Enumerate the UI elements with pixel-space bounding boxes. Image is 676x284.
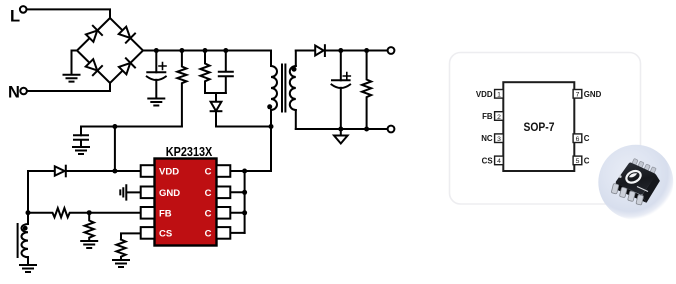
svg-text:FB: FB (159, 208, 172, 219)
wire secondary top to diode (296, 50, 315, 52)
pin names package (476, 90, 602, 166)
svg-text:6: 6 (576, 136, 580, 143)
svg-text:C: C (205, 208, 212, 219)
node dot aux (26, 210, 31, 215)
chip side face (642, 175, 660, 203)
wire N to bridge bottom (27, 83, 110, 91)
wire ic right bus (230, 171, 271, 233)
chip front face (616, 183, 647, 203)
capacitor C1 electrolytic (155, 51, 157, 73)
ground C1 (148, 99, 164, 106)
svg-text:C: C (584, 156, 590, 165)
pin boxes U1 right (217, 165, 231, 177)
wire primary bottom to drain (270, 110, 272, 171)
transformer core (282, 65, 285, 112)
node N terminal (20, 88, 27, 95)
wire L to bridge top (27, 9, 111, 18)
ground R6 (113, 260, 129, 267)
diode D7 vdd (28, 170, 55, 172)
chip front pins (611, 183, 643, 205)
chip logo swirl (624, 169, 642, 185)
pin labels U1 (159, 167, 212, 240)
chip marking text (637, 187, 648, 192)
transformer T1 primary (270, 51, 272, 67)
aux winding L1 (21, 224, 28, 257)
svg-text:CS: CS (482, 156, 493, 165)
node dot fb (87, 210, 92, 215)
wire main rail (143, 50, 271, 52)
node secondary dot (292, 67, 297, 72)
svg-text:7: 7 (576, 92, 580, 99)
chip pin1 dot (619, 175, 622, 178)
capacitor C2 snubber (219, 51, 233, 94)
ground bridge (64, 75, 80, 82)
node dots output (338, 48, 343, 53)
transformer T1 secondary (295, 51, 297, 67)
node dot vdd feed (112, 124, 117, 129)
svg-text:N: N (8, 84, 20, 102)
resistor R3 output (362, 51, 371, 130)
node aux winding dot (23, 226, 28, 231)
wire aux column (27, 171, 29, 224)
svg-text:4: 4 (497, 158, 501, 165)
wire vcc feed (81, 127, 182, 136)
node dots ic bus (242, 169, 247, 174)
svg-text:5: 5 (576, 158, 580, 165)
svg-text:VDD: VDD (476, 90, 493, 99)
node L terminal (20, 6, 27, 13)
pin boxes U1 left (141, 165, 231, 239)
chip back pins (632, 158, 657, 174)
capacitor C4 (74, 135, 88, 146)
resistor R2 snubber (200, 51, 209, 94)
diode D3 bridge (86, 59, 98, 70)
wire left vertex to ground (72, 51, 78, 75)
diode D1 bridge (86, 31, 97, 42)
wire vdd (66, 170, 140, 172)
node dots rail (154, 48, 159, 53)
ground output triangle (340, 129, 342, 136)
resistor R5 fb lower (85, 213, 94, 241)
svg-text:GND: GND (159, 188, 180, 199)
resistor R4 fb series (28, 208, 141, 217)
svg-text:FB: FB (482, 112, 493, 121)
node output terminal top (388, 47, 395, 54)
svg-text:C: C (205, 228, 212, 239)
svg-text:3: 3 (497, 136, 501, 143)
svg-text:C: C (584, 134, 590, 143)
svg-text:SOP-7: SOP-7 (524, 122, 555, 134)
wire vdd drop (114, 127, 116, 172)
chip top face (615, 162, 657, 195)
chip 3d render (611, 158, 660, 205)
wire output bottom rail (296, 128, 388, 130)
aux core bar (17, 224, 19, 257)
resistor R6 cs (116, 240, 125, 260)
diode D2 bridge (119, 27, 131, 38)
pin numbers package (497, 92, 580, 166)
diode D5 snubber (215, 93, 217, 102)
svg-text:C: C (205, 167, 212, 178)
wire snubber to drain (216, 126, 271, 128)
svg-text:C: C (205, 188, 212, 199)
resistor R1 (177, 51, 186, 127)
wire bridge frame (77, 18, 143, 83)
wire cs (121, 233, 141, 239)
badge circle (598, 145, 673, 220)
capacitor C3 output electrolytic (340, 51, 342, 81)
card sop7 (450, 53, 641, 205)
op-amp U1 KP2313X body (155, 159, 217, 246)
node primary dot (267, 104, 272, 109)
diode D4 bridge (119, 63, 130, 74)
pin boxes package (495, 90, 582, 165)
node dot drain snubber (269, 124, 274, 129)
svg-text:NC: NC (481, 134, 493, 143)
node dot vdd (112, 169, 117, 174)
package SOP-7 outline (503, 82, 574, 171)
node output terminal bottom (388, 126, 395, 133)
svg-text:2: 2 (497, 114, 501, 121)
diode D6 output (315, 46, 323, 56)
ground R5 (81, 241, 97, 248)
svg-text:1: 1 (497, 92, 501, 99)
svg-text:GND: GND (584, 90, 602, 99)
wire snubber bottom (205, 92, 226, 94)
svg-text:L: L (10, 8, 20, 26)
svg-text:CS: CS (159, 228, 172, 239)
ground aux (20, 265, 36, 272)
ground gnd pin rotated (120, 185, 140, 199)
svg-text:VDD: VDD (159, 167, 179, 178)
svg-text:KP2313X: KP2313X (166, 144, 213, 159)
ground C4 (73, 147, 89, 154)
